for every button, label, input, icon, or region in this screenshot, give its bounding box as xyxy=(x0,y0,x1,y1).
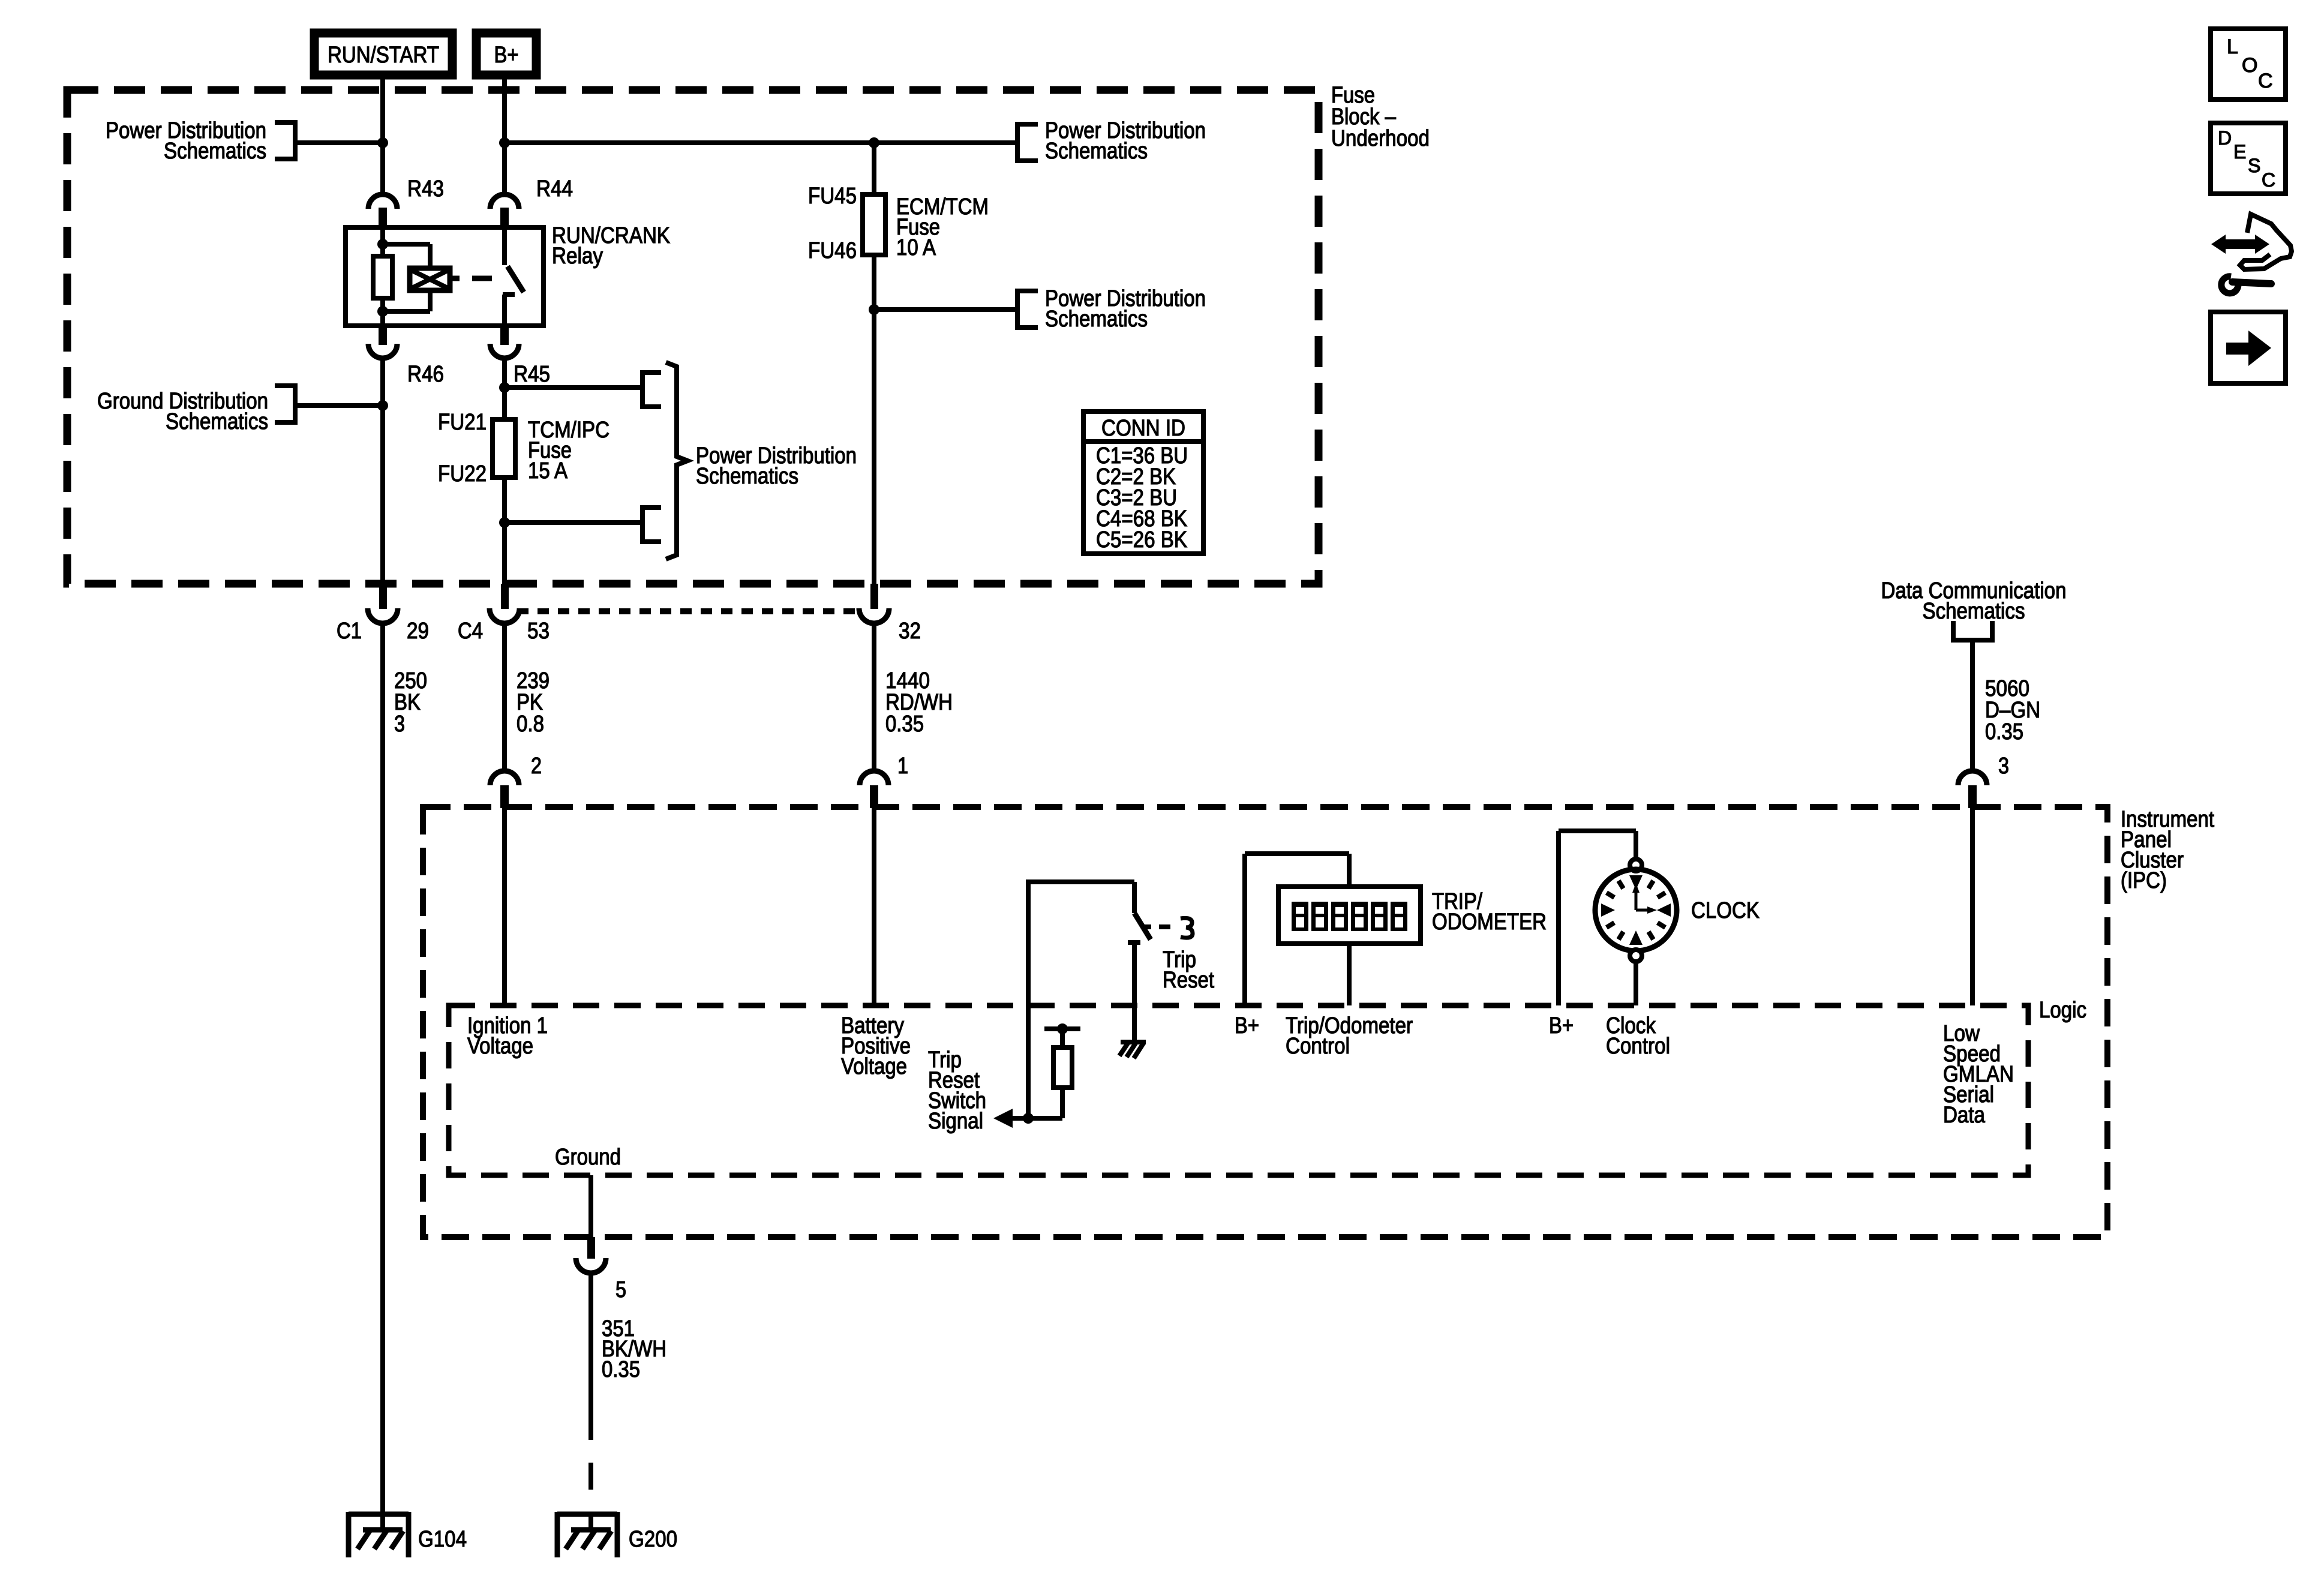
node junction fuse output tap xyxy=(499,517,510,528)
label B+ (clock) xyxy=(1549,1013,1574,1038)
svg-text:G200: G200 xyxy=(629,1527,677,1552)
svg-text:Reset: Reset xyxy=(1163,968,1214,993)
wire R45 to power distribution stub (upper) xyxy=(505,385,640,390)
label RUN/CRANK Relay xyxy=(552,223,670,269)
wire fuse FU22 down to C4 xyxy=(502,478,507,584)
off-page stub lower xyxy=(642,505,661,544)
label Power Distribution Schematics (top right) xyxy=(1045,118,1206,164)
connector cavity 32 xyxy=(859,584,921,644)
label G104 xyxy=(418,1527,467,1552)
connector C1 cavity 29 xyxy=(337,584,429,644)
label Power Distribution Schematics (brace) xyxy=(696,443,857,489)
connector IPC pin 2 xyxy=(490,754,542,808)
switch actuator curl xyxy=(1181,918,1193,938)
svg-text:R44: R44 xyxy=(536,176,573,202)
icon arrow box xyxy=(2211,312,2286,383)
svg-text:0.35: 0.35 xyxy=(602,1357,640,1382)
svg-text:G104: G104 xyxy=(418,1527,467,1552)
svg-text:CONN ID: CONN ID xyxy=(1101,416,1185,441)
off-page bracket Power Distribution (top right) xyxy=(1017,122,1038,163)
node junction power distribution tap xyxy=(377,137,388,148)
wire relay R46 down to C1 xyxy=(380,357,385,584)
label 351 BK/WH 0.35 xyxy=(602,1316,666,1382)
svg-text:29: 29 xyxy=(407,619,429,644)
node junction trip reset signal xyxy=(1023,1113,1034,1124)
label CLOCK xyxy=(1691,898,1759,923)
connector IPC pin 1 xyxy=(860,754,908,808)
connector IPC pin 5 xyxy=(576,1237,626,1302)
relay switch contact xyxy=(503,227,524,326)
icon LOC box xyxy=(2211,29,2286,100)
label Clock Control xyxy=(1606,1013,1670,1059)
wire clock control pin xyxy=(1634,962,1638,1005)
svg-text:10 A: 10 A xyxy=(896,235,936,260)
ground G104 xyxy=(349,1512,409,1557)
svg-text:5: 5 xyxy=(615,1277,626,1302)
connector terminal R44 xyxy=(490,176,573,229)
connector IPC pin 3 xyxy=(1958,754,2009,808)
node junction B+ tap xyxy=(499,137,510,148)
wire RUN/START to relay R43 xyxy=(380,75,385,194)
icon diagnostic wrench xyxy=(2211,214,2292,293)
svg-text:Schematics: Schematics xyxy=(696,464,798,489)
label 250 BK 3 xyxy=(394,668,427,737)
svg-text:R43: R43 xyxy=(407,176,444,202)
ground G200 xyxy=(557,1512,617,1557)
wire ECM/TCM fuse feed xyxy=(872,143,876,194)
relay coil resistor xyxy=(373,227,392,326)
switch Trip Reset blade xyxy=(1134,913,1151,939)
label Trip/Odometer Control xyxy=(1286,1013,1413,1059)
off-page bracket Ground Distribution xyxy=(275,383,295,425)
wire trip reset switch signal with arrow xyxy=(993,1109,1062,1128)
svg-text:Control: Control xyxy=(1606,1034,1670,1059)
svg-text:B+: B+ xyxy=(494,43,519,68)
wire B+ feed to Power Distribution Schematics xyxy=(505,140,1015,145)
wire ground pin xyxy=(588,1175,593,1237)
node junction R45 feed tap xyxy=(499,382,510,393)
svg-text:L: L xyxy=(2227,35,2238,58)
terminal RUN/START xyxy=(314,33,452,75)
svg-text:Schematics: Schematics xyxy=(166,409,268,434)
label Power Distribution Schematics (left) xyxy=(106,118,266,164)
clock symbol xyxy=(1595,859,1677,962)
svg-text:Schematics: Schematics xyxy=(1045,307,1148,332)
svg-text:0.35: 0.35 xyxy=(885,712,924,737)
svg-text:Relay: Relay xyxy=(552,244,603,269)
wire B+ loop to odometer xyxy=(1245,854,1349,1005)
wire B+ loop to clock xyxy=(1559,831,1636,1005)
node relay coil top junction xyxy=(377,239,388,250)
instrument panel cluster dashed boundary xyxy=(423,807,2107,1237)
label Instrument Panel Cluster (IPC) xyxy=(2121,807,2214,893)
label Logic xyxy=(2039,998,2086,1023)
label FU45 xyxy=(808,184,857,209)
svg-text:D: D xyxy=(2218,127,2232,149)
label TRIP/ODOMETER xyxy=(1432,889,1547,935)
label FU46 xyxy=(808,238,857,263)
svg-text:Logic: Logic xyxy=(2039,998,2086,1023)
svg-text:3: 3 xyxy=(394,712,405,737)
svg-text:C: C xyxy=(2258,70,2273,92)
fuse block - underhood dashed boundary xyxy=(67,90,1319,584)
wire pin 2 to Ignition 1 Voltage xyxy=(502,807,507,1005)
node junction ground distribution tap xyxy=(377,400,388,411)
ground chassis (trip reset) xyxy=(1119,1042,1146,1058)
svg-text:C1: C1 xyxy=(337,619,362,644)
label Ground xyxy=(555,1145,621,1170)
label Data Communication Schematics xyxy=(1881,578,2067,624)
wire pin 1 to Battery Positive Voltage xyxy=(872,807,876,1005)
label Low Speed GMLAN Serial Data xyxy=(1943,1021,2014,1128)
svg-text:B+: B+ xyxy=(1235,1013,1259,1038)
off-page bracket Power Distribution xyxy=(275,120,295,161)
svg-text:O: O xyxy=(2242,54,2257,77)
off-page stub upper xyxy=(642,370,661,409)
icon DESC box xyxy=(2211,123,2286,194)
switch linkage dashed xyxy=(1142,924,1170,929)
connector C4 cavity 53 xyxy=(458,584,550,644)
svg-text:FU21: FU21 xyxy=(438,410,487,435)
svg-text:53: 53 xyxy=(527,619,550,644)
svg-text:R45: R45 xyxy=(514,362,550,387)
svg-text:Control: Control xyxy=(1286,1034,1350,1059)
label 5060 D-GN 0.35 xyxy=(1985,676,2040,745)
brace Power Distribution Schematics xyxy=(666,362,687,559)
svg-text:0.8: 0.8 xyxy=(517,712,544,737)
svg-text:Data: Data xyxy=(1943,1103,1986,1128)
wire B+ to relay R44 xyxy=(502,75,507,194)
svg-text:CLOCK: CLOCK xyxy=(1691,898,1759,923)
wire to Ground Distribution Schematics bracket xyxy=(298,403,383,408)
svg-text:R46: R46 xyxy=(407,362,444,387)
svg-text:Schematics: Schematics xyxy=(1923,599,2025,624)
svg-text:C5=26 BK: C5=26 BK xyxy=(1096,527,1187,553)
svg-text:15 A: 15 A xyxy=(528,458,568,484)
wire 351 BK/WH 0.35 xyxy=(588,1273,593,1512)
svg-text:32: 32 xyxy=(899,619,921,644)
svg-text:ODOMETER: ODOMETER xyxy=(1432,909,1547,935)
svg-text:B+: B+ xyxy=(1549,1013,1574,1038)
svg-text:C: C xyxy=(2262,169,2275,191)
wire relay R45 down to fuse FU21 xyxy=(502,357,507,419)
relay actuation dashed link xyxy=(450,276,492,281)
node junction ECM/TCM fuse tap xyxy=(869,137,879,148)
svg-text:(IPC): (IPC) xyxy=(2121,868,2167,893)
fuse FU45/FU46 ECM/TCM 10A xyxy=(863,194,885,255)
CONN ID table xyxy=(1083,412,1203,554)
svg-text:Signal: Signal xyxy=(928,1109,983,1134)
wire pin 3 to GMLAN serial data xyxy=(1970,807,1975,1005)
terminal B+ xyxy=(476,33,536,75)
label Ground Distribution Schematics xyxy=(97,389,268,434)
relay RUN/CRANK outline xyxy=(346,227,544,326)
svg-text:C4: C4 xyxy=(458,619,483,644)
off-page bracket Power Distribution (mid right) xyxy=(1017,289,1038,330)
label TCM/IPC Fuse 15 A xyxy=(528,418,609,484)
logic block dashed boundary xyxy=(449,1005,2028,1175)
connector line C4 dotted xyxy=(517,608,861,614)
display TRIP/ODOMETER xyxy=(1278,887,1421,944)
label Fuse Block - Underhood xyxy=(1331,83,1430,151)
svg-text:Ground: Ground xyxy=(555,1145,621,1170)
label Trip Reset xyxy=(1163,947,1214,993)
wire to power distribution stub (lower) xyxy=(505,520,640,525)
connector terminal R45 xyxy=(490,326,550,387)
off-page connector Data Communication xyxy=(1953,621,1992,640)
svg-text:Underhood: Underhood xyxy=(1331,126,1430,151)
label Battery Positive Voltage xyxy=(841,1013,911,1079)
svg-text:1: 1 xyxy=(897,754,908,779)
wire to Power Distribution Schematics (mid right) xyxy=(874,307,1015,312)
connector terminal R46 xyxy=(368,326,444,387)
fuse FU21/FU22 TCM/IPC 15A xyxy=(493,419,515,478)
svg-text:FU45: FU45 xyxy=(808,184,857,209)
svg-text:0.35: 0.35 xyxy=(1985,719,2023,745)
label 1440 RD/WH 0.35 xyxy=(885,668,953,737)
wire 5060 D-GN 0.35 xyxy=(1970,640,1975,771)
node relay coil bottom junction xyxy=(377,306,388,317)
label 239 PK 0.8 xyxy=(517,668,550,737)
resistor trip reset pull-up xyxy=(1044,1023,1080,1118)
svg-text:2: 2 xyxy=(531,754,542,779)
svg-text:Schematics: Schematics xyxy=(1045,139,1148,164)
svg-text:E: E xyxy=(2233,141,2246,163)
wire 239 PK 0.8 xyxy=(502,623,507,771)
svg-text:S: S xyxy=(2248,155,2260,176)
label Trip Reset Switch Signal xyxy=(928,1047,986,1134)
wire odometer control pin xyxy=(1347,944,1352,1005)
svg-text:Voltage: Voltage xyxy=(467,1034,533,1059)
label Ignition 1 Voltage xyxy=(467,1013,548,1059)
svg-text:3: 3 xyxy=(1998,754,2009,779)
svg-text:FU46: FU46 xyxy=(808,238,857,263)
label G200 xyxy=(629,1527,677,1552)
node junction lower power distribution tap xyxy=(869,304,879,315)
svg-text:Schematics: Schematics xyxy=(164,139,266,164)
label Power Distribution Schematics (mid right) xyxy=(1045,286,1206,332)
wire trip reset switch loop xyxy=(1028,879,1134,1118)
wire 250 BK 3 (C1 to G104) xyxy=(380,623,385,1530)
svg-text:Voltage: Voltage xyxy=(841,1054,907,1079)
connector terminal R43 xyxy=(368,176,444,229)
relay solenoid winding with X xyxy=(383,244,450,311)
label B+ (odometer) xyxy=(1235,1013,1259,1038)
label FU22 xyxy=(438,461,487,487)
wire to Power Distribution Schematics bracket xyxy=(298,140,383,145)
label ECM/TCM Fuse 10 A xyxy=(896,194,989,260)
wire fuse FU46 down to connector 32 xyxy=(872,255,876,584)
svg-text:FU22: FU22 xyxy=(438,461,487,487)
label FU21 xyxy=(438,410,487,435)
svg-text:RUN/START: RUN/START xyxy=(328,43,439,68)
wire 1440 RD/WH 0.35 xyxy=(872,623,876,771)
switch lower contact xyxy=(1128,942,1140,1040)
